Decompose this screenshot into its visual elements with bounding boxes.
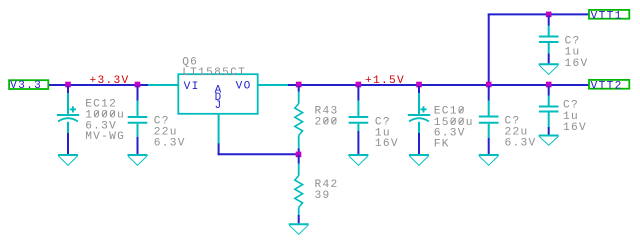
value label R43 200 bbox=[315, 106, 339, 129]
value label R42 39 bbox=[315, 179, 339, 202]
value label LT1585CT bbox=[182, 67, 246, 79]
svg-text:V3.3: V3.3 bbox=[10, 80, 42, 92]
ground for EC10 bbox=[409, 155, 429, 165]
value label C? 1u 16V (top) bbox=[565, 35, 589, 70]
ground for C? 1u (VTT1) bbox=[539, 64, 559, 74]
pin name VO bbox=[236, 81, 252, 93]
power port VTT1 bbox=[589, 10, 629, 23]
ground for C? 1u bbox=[348, 155, 368, 165]
value label C? 1u 16V bbox=[375, 116, 399, 150]
capacitor C? 22u 6.3V (VTT) bbox=[479, 86, 499, 154]
node junction on VTT1 rail bbox=[546, 12, 552, 18]
svg-text:39: 39 bbox=[315, 190, 331, 202]
capacitor C? 1u 16V (VTT1 bypass) bbox=[539, 15, 559, 63]
node junction on +1.5V rail at C? 22u / VTT1 riser bbox=[486, 82, 492, 88]
capacitor C? 1u 16V (output) bbox=[349, 86, 369, 154]
node junction on +3.3V rail at C? 22u bbox=[135, 82, 141, 88]
ground for C? 22u (VTT) bbox=[479, 155, 499, 165]
svg-text:FK: FK bbox=[434, 138, 450, 150]
pin name ADJ (vertical) bbox=[215, 84, 222, 112]
ground for R42 bbox=[289, 224, 309, 234]
node junction on +1.5V rail at resistor divider bbox=[296, 82, 302, 88]
value label EC10 1500u 6.3V FK bbox=[434, 106, 474, 151]
net label +1.5V bbox=[365, 75, 405, 87]
resistor R43 bbox=[295, 86, 303, 155]
designator Q6 bbox=[182, 56, 198, 68]
power port V3.3 bbox=[9, 80, 48, 92]
node junction on +1.5V rail at VTT2 cap bbox=[546, 82, 552, 88]
svg-text:C?: C? bbox=[563, 99, 579, 111]
svg-text:200: 200 bbox=[315, 116, 339, 128]
capacitor EC12 (polarized electrolytic) bbox=[57, 86, 79, 154]
svg-text:22u: 22u bbox=[505, 126, 529, 138]
svg-text:+3.3V: +3.3V bbox=[90, 75, 130, 87]
node junction on +3.3V rail at EC12 bbox=[65, 82, 71, 88]
svg-text:J: J bbox=[215, 100, 222, 112]
wire: vertical riser from +1.5V rail up to VTT1 rail bbox=[488, 14, 490, 85]
svg-text:LT1585CT: LT1585CT bbox=[182, 67, 246, 79]
node junction on +1.5V rail at EC10 bbox=[416, 82, 422, 88]
net label +3.3V bbox=[90, 75, 130, 87]
svg-text:VI: VI bbox=[184, 81, 200, 93]
resistor R42 bbox=[295, 155, 303, 223]
svg-text:VTT2: VTT2 bbox=[591, 80, 623, 92]
svg-text:MV-WG: MV-WG bbox=[85, 131, 125, 143]
slashed-zero marks on value labels bbox=[94, 107, 463, 124]
value label C? 22u 6.3V bbox=[154, 116, 186, 150]
svg-text:VO: VO bbox=[236, 81, 252, 93]
svg-text:C?: C? bbox=[565, 35, 581, 47]
op-amp regulator U/Q6 LT1585CT body bbox=[148, 74, 288, 143]
svg-text:+1.5V: +1.5V bbox=[365, 75, 405, 87]
ground for EC12 bbox=[58, 155, 78, 165]
value label C? 1u 16V (bottom right) bbox=[563, 99, 587, 134]
pin name VI bbox=[184, 81, 200, 93]
svg-text:VTT1: VTT1 bbox=[591, 11, 623, 23]
svg-text:6.3V: 6.3V bbox=[154, 137, 186, 149]
svg-text:16V: 16V bbox=[563, 122, 587, 134]
svg-text:1u: 1u bbox=[563, 111, 579, 123]
ground for C? 1u (VTT2) bbox=[539, 136, 559, 146]
capacitor EC10 (polarized electrolytic) bbox=[408, 86, 430, 154]
power port VTT2 bbox=[589, 80, 629, 92]
svg-text:1u: 1u bbox=[565, 47, 581, 59]
wire: VTT1 top rail bbox=[488, 13, 589, 15]
svg-text:6.3V: 6.3V bbox=[505, 138, 537, 150]
wire: main +3.3V rail from V3.3 port to regulator VI bbox=[49, 84, 150, 86]
value label C? 22u 6.3V bbox=[505, 115, 537, 149]
capacitor C? 22u 6.3V (input bypass) bbox=[128, 86, 148, 154]
value label EC12 1000u 6.3V MV-WG bbox=[85, 99, 125, 144]
svg-text:16V: 16V bbox=[375, 138, 399, 150]
ground for C? 22u bbox=[128, 155, 148, 165]
node junction at ADJ / divider midpoint bbox=[296, 152, 302, 158]
capacitor C? 1u 16V (VTT2 bypass) bbox=[539, 86, 559, 135]
svg-text:16V: 16V bbox=[565, 58, 589, 70]
wire: ADJ net from regulator bottom pin to resistor divider node bbox=[218, 143, 299, 156]
wire: main +1.5V rail from regulator VO to VTT2 port bbox=[287, 84, 589, 86]
node junction on +1.5V rail at C? 1u bbox=[356, 82, 362, 88]
